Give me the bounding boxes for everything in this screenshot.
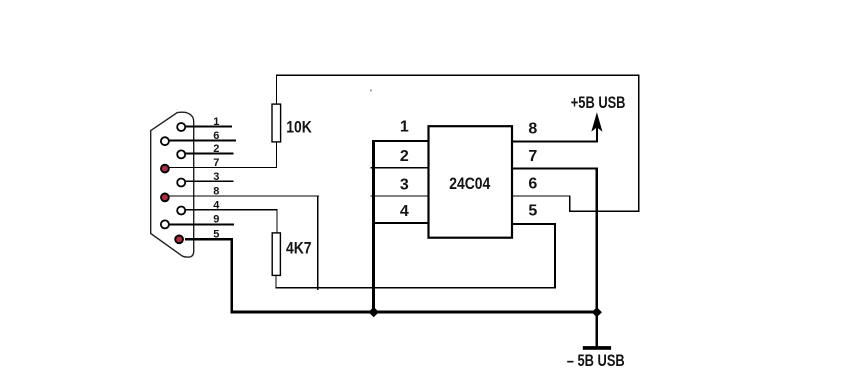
svg-text:4: 4 — [400, 203, 409, 220]
svg-text:3: 3 — [400, 176, 409, 193]
wire pin6 step horizontal — [569, 210, 639, 212]
wire IC pin2 line — [371, 167, 429, 168]
DB9 pin 8 — [161, 194, 169, 202]
wire top rail horizontal — [276, 74, 639, 76]
svg-text:3: 3 — [213, 171, 219, 183]
svg-text:6: 6 — [528, 175, 537, 192]
wire bottom ground bus — [231, 311, 598, 314]
svg-text:24C04: 24C04 — [449, 175, 490, 194]
wire 4K7 top lead vertical — [276, 209, 277, 233]
wire pin6 step vertical — [569, 195, 571, 211]
wire DB9 pin6 stub — [169, 140, 236, 142]
svg-text:2: 2 — [213, 143, 219, 155]
svg-text:2: 2 — [400, 148, 409, 165]
wire DB9 pin4 to 4K7 top — [185, 209, 278, 210]
resistor 10K body — [272, 104, 281, 142]
svg-text:7: 7 — [213, 157, 219, 169]
wire DB9 pin3 stub — [185, 181, 234, 182]
svg-text:4: 4 — [213, 200, 220, 212]
svg-text:9: 9 — [213, 214, 219, 226]
wire 4K7 bottom lead vertical — [275, 275, 276, 288]
DB9 pin 5 — [175, 235, 183, 243]
svg-text:8: 8 — [528, 121, 537, 138]
svg-text:5: 5 — [213, 228, 219, 240]
wire DB9 pin2 stub — [185, 153, 234, 155]
wire IC pin4 line — [372, 222, 428, 224]
svg-text:4K7: 4K7 — [286, 239, 312, 258]
svg-text:6: 6 — [213, 130, 219, 142]
DB9 pin 1 — [177, 123, 185, 131]
+5V supply arrow head — [591, 112, 602, 132]
DB9 pin 6 — [161, 137, 169, 145]
wire DB9 pin7 to 10K — [169, 167, 277, 168]
svg-text:1: 1 — [400, 119, 409, 136]
wire IC pin6 line — [512, 195, 571, 196]
wire DB9 pin8 vertical drop — [317, 195, 319, 289]
wire ground vertical from IC pin7 — [595, 168, 598, 347]
wire IC pin3 line — [371, 195, 429, 196]
svg-text:– 5B USB: – 5B USB — [567, 352, 625, 370]
junction dot at IC bus and ground bus — [369, 307, 379, 317]
ground bar -5V — [583, 346, 611, 350]
svg-text:5: 5 — [528, 203, 537, 220]
wire +5V arrow shaft — [596, 124, 598, 142]
stray mark — [370, 90, 372, 92]
DB9 pin 2 — [177, 150, 185, 158]
DB9 pin 4 — [177, 207, 185, 215]
svg-text:7: 7 — [528, 148, 537, 165]
DB9 pin 3 — [177, 179, 185, 187]
wire IC pin7 line — [512, 167, 598, 169]
wire DB9 pin9 stub — [169, 223, 234, 225]
wire DB9 pin5 vertical drop — [231, 238, 234, 313]
DB9 pin 7 — [161, 165, 169, 173]
svg-text:8: 8 — [213, 186, 219, 198]
svg-text:1: 1 — [213, 116, 219, 128]
svg-text:+5B USB: +5B USB — [571, 95, 626, 113]
wire IC left bus vertical — [372, 140, 375, 313]
svg-text:10K: 10K — [286, 118, 312, 137]
junction dot at ground drop — [592, 307, 602, 317]
wire DB9 pin8 horizontal — [169, 195, 319, 196]
wire IC pin5 line — [512, 223, 557, 225]
DB9 connector J1 outline — [151, 112, 194, 257]
wire IC pin5 vertical drop — [554, 223, 556, 289]
wire mid horizontal 4K7 to IC pin5 — [275, 287, 556, 288]
IC U1 24C04 body — [429, 126, 513, 238]
wire 10K top lead vertical — [276, 75, 277, 105]
wire DB9 pin1 stub — [185, 126, 232, 128]
wire IC pin8 to +5V — [512, 140, 598, 142]
wire DB9 pin5 horizontal — [185, 238, 233, 240]
resistor 4K7 body — [272, 233, 280, 276]
wire 10K bottom lead vertical — [276, 142, 277, 168]
DB9 pin 9 — [161, 220, 169, 228]
wire right rail vertical — [638, 74, 640, 212]
wire IC pin1 line — [372, 140, 428, 142]
